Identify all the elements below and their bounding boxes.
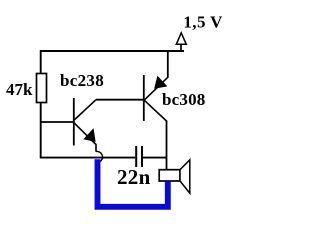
transistor Q1 bc238 base bar	[73, 98, 75, 146]
capacitor C1 left plate	[135, 146, 137, 167]
transistor Q2 collector diagonal	[144, 100, 167, 121]
svg-text:22n: 22n	[117, 165, 151, 189]
transistor Q2 emitter arrow (PNP, pointing in)	[155, 77, 167, 88]
svg-text:bc238: bc238	[60, 71, 104, 90]
svg-text:1,5 V: 1,5 V	[183, 12, 223, 31]
power symbol 1,5 V (triangle)	[176, 33, 186, 44]
wire: bottom rail (left part, to capacitor)	[40, 157, 135, 159]
transistor Q2 emitter diagonal	[144, 77, 168, 100]
wire: Q2 emitter up to supply rail	[167, 51, 169, 78]
transistor Q1 emitter diagonal	[74, 123, 96, 152]
blue wire: emitter return to speaker	[98, 159, 168, 207]
wire: base wire of Q1	[41, 121, 74, 123]
wire: Q1 collector to Q2 base coupling	[96, 99, 144, 101]
wire: top supply rail	[41, 50, 184, 52]
capacitor C1 right plate	[141, 146, 143, 167]
transistor Q1 emitter arrow (NPN, pointing out)	[84, 129, 95, 141]
speaker LS1 driver box	[159, 170, 180, 181]
wire: Q2 collector down to speaker	[166, 121, 168, 170]
wire hop: emitter to blue wire, arc over bottom rail	[96, 151, 103, 162]
svg-text:47k: 47k	[6, 80, 33, 99]
transistor Q2 bc308 base bar	[143, 75, 145, 121]
wire: left vertical rail	[40, 50, 42, 158]
speaker LS1 cone	[180, 160, 190, 193]
transistor Q1 collector diagonal	[74, 100, 96, 120]
wire: bottom rail (capacitor to speaker junction)	[143, 157, 167, 159]
svg-text:bc308: bc308	[162, 90, 206, 109]
resistor R1 47k	[37, 74, 47, 103]
power symbol stem	[180, 44, 182, 51]
